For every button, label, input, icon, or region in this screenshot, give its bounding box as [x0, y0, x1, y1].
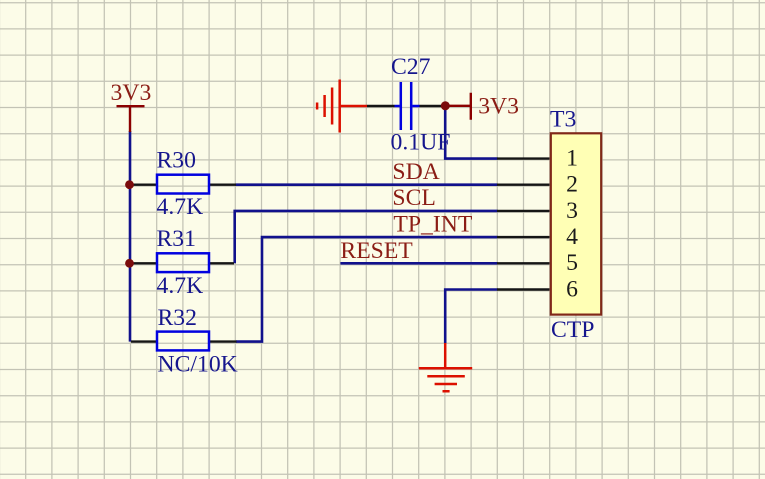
svg-text:0.1UF: 0.1UF [391, 130, 451, 156]
svg-text:6: 6 [566, 276, 578, 302]
svg-text:3V3: 3V3 [478, 94, 519, 120]
svg-text:2: 2 [566, 172, 578, 198]
svg-text:4.7K: 4.7K [157, 273, 204, 299]
svg-text:3: 3 [566, 198, 578, 224]
svg-text:CTP: CTP [551, 317, 594, 343]
svg-text:SDA: SDA [392, 159, 439, 185]
svg-text:TP_INT: TP_INT [393, 212, 472, 238]
svg-text:1: 1 [566, 146, 578, 172]
svg-text:R31: R31 [157, 226, 197, 252]
svg-text:T3: T3 [550, 107, 576, 133]
svg-text:4.7K: 4.7K [157, 194, 204, 220]
svg-text:3V3: 3V3 [111, 80, 152, 106]
svg-text:RESET: RESET [340, 238, 413, 264]
svg-text:5: 5 [566, 250, 578, 276]
svg-text:C27: C27 [391, 54, 431, 80]
svg-text:NC/10K: NC/10K [158, 351, 238, 377]
svg-text:SCL: SCL [392, 185, 435, 211]
svg-text:4: 4 [566, 224, 578, 250]
svg-text:R30: R30 [157, 148, 197, 174]
svg-text:R32: R32 [158, 305, 198, 331]
